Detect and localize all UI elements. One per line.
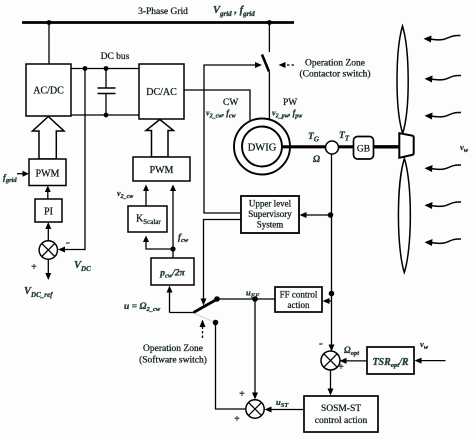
block SOSM-ST control action xyxy=(304,396,378,432)
svg-text:Upper level: Upper level xyxy=(249,199,292,209)
svg-text:+: + xyxy=(31,262,37,273)
svg-text:PWM: PWM xyxy=(150,165,174,176)
wire Omega feedback vertical xyxy=(331,154,333,348)
node Omega to supervisory xyxy=(328,212,334,218)
summing junction S3 xyxy=(321,351,340,370)
wire p_cw box to f_cw node xyxy=(172,249,174,258)
block PWM2 (CW side) xyxy=(133,157,190,181)
wire u_FF down to summing S2 xyxy=(254,299,256,396)
converter DC/AC U2 xyxy=(139,64,184,119)
svg-text:action: action xyxy=(288,300,310,310)
wire f_cw to PWM2 xyxy=(172,188,174,249)
wire K_scalar to PWM2 xyxy=(145,188,147,206)
wire PI to PWM1 xyxy=(47,189,49,199)
wire DC bus bottom xyxy=(71,114,139,116)
wire Omega to FF box xyxy=(326,300,332,302)
node: switch bottom contact xyxy=(213,320,219,326)
node: capacitor bottom xyxy=(104,113,109,118)
svg-text:Operation Zone: Operation Zone xyxy=(143,344,203,354)
wind arrow 6 xyxy=(431,239,462,243)
block arrow PWM2 to DC/AC xyxy=(146,120,174,158)
svg-text:CW: CW xyxy=(223,98,238,108)
wire TSR to S3 xyxy=(343,360,367,362)
svg-text:DC bus: DC bus xyxy=(101,52,130,62)
converter AC/DC U1 xyxy=(26,64,71,116)
svg-text:+: + xyxy=(239,389,245,400)
software switch blade xyxy=(194,300,217,313)
3-phase grid bus xyxy=(22,21,294,24)
block TSR_opt/R xyxy=(367,347,414,374)
shaft DWIG to gearbox xyxy=(281,145,354,148)
gearbox GB xyxy=(354,137,374,160)
block K_scalar xyxy=(128,206,167,232)
wire u_ST from SOSM to S2 xyxy=(268,409,304,411)
node: grid tap left xyxy=(47,20,52,25)
block p_cw/2pi xyxy=(151,258,194,285)
wire f_grid arrow into PWM1 xyxy=(17,173,25,175)
node f_cw xyxy=(170,246,175,251)
wire S3 to SOSM xyxy=(330,370,332,393)
block arrow PWM1 to AC/DC xyxy=(33,117,65,160)
turbine blade lower xyxy=(398,159,410,273)
svg-text:(Software switch): (Software switch) xyxy=(139,355,207,366)
block FF control action xyxy=(275,287,322,312)
svg-text:GB: GB xyxy=(357,145,370,155)
wind arrow 3 xyxy=(431,112,462,116)
svg-text:Ω: Ω xyxy=(313,155,320,165)
wire Omega to supervisory box xyxy=(303,214,331,216)
svg-text:Operation Zone: Operation Zone xyxy=(305,59,365,69)
svg-text:pcw/2π: pcw/2π xyxy=(159,269,185,280)
wire grid to AC/DC xyxy=(48,23,50,65)
svg-text:SOSM-ST: SOSM-ST xyxy=(321,404,361,414)
turbine hub xyxy=(399,133,413,158)
svg-text:FF control: FF control xyxy=(280,290,318,300)
block PWM1 (grid side) xyxy=(29,159,66,186)
node: switch top contact xyxy=(214,296,220,302)
node: speed sensor circle xyxy=(326,141,339,154)
turbine blade upper xyxy=(397,26,408,134)
wire supervisory to contactor switch xyxy=(204,65,256,213)
summing junction S2 xyxy=(246,400,264,418)
wire V_DC sense from DC bus to S1 xyxy=(62,69,85,250)
svg-text:+: + xyxy=(338,362,344,373)
node u_FF branch xyxy=(252,296,258,302)
contactor switch blade xyxy=(262,55,269,72)
faint open-position line of software switch xyxy=(195,314,214,322)
svg-text:3-Phase Grid: 3-Phase Grid xyxy=(138,7,188,17)
wire grid down to contactor xyxy=(268,23,270,53)
wire contactor to PW xyxy=(268,72,270,121)
wind arrow 2 xyxy=(431,75,462,79)
wire V_DC_ref stub with down arrow xyxy=(47,259,49,275)
wire u_FF xyxy=(217,298,275,300)
node: V_DC tap xyxy=(83,66,88,71)
svg-text:control action: control action xyxy=(315,416,368,426)
wire stub to software switch xyxy=(170,312,194,314)
summing junction S1 xyxy=(39,241,57,259)
node: grid tap at contactor xyxy=(267,20,272,25)
node Omega to FF xyxy=(329,291,335,297)
svg-text:AC/DC: AC/DC xyxy=(33,86,64,97)
block Upper level Supervisory System xyxy=(241,196,299,233)
svg-text:System: System xyxy=(257,220,284,230)
svg-text:Supervisory: Supervisory xyxy=(248,209,292,219)
svg-text:+: + xyxy=(234,414,240,425)
svg-text:PI: PI xyxy=(44,207,53,218)
svg-text:PW: PW xyxy=(283,98,297,108)
wire u up into p_cw box xyxy=(169,289,171,313)
dashed arrow to contactor switch xyxy=(283,64,294,66)
wire summing S1 to PI xyxy=(47,226,49,241)
svg-text:DWIG: DWIG xyxy=(248,143,277,154)
wire S2 output to switch bottom contact xyxy=(216,323,246,410)
wire f_cw branch to K_scalar xyxy=(146,239,173,249)
wind arrow 1 xyxy=(430,35,461,39)
wind arrow 4 xyxy=(431,165,462,169)
svg-text:TSRopt/R: TSRopt/R xyxy=(372,357,408,369)
svg-text:-: - xyxy=(66,235,70,249)
block PI xyxy=(35,199,62,222)
shaft gearbox to turbine xyxy=(374,145,400,148)
dashed arrow to software switch xyxy=(202,325,204,338)
machine DWIG outer circle xyxy=(234,119,290,175)
machine DWIG inner circle xyxy=(242,127,282,167)
svg-text:-: - xyxy=(319,336,323,350)
wire supervisory to software switch xyxy=(204,220,242,301)
wire CW from DC/AC to DWIG xyxy=(184,90,250,121)
wind arrow 5 xyxy=(431,202,462,206)
wire DC bus top xyxy=(71,68,139,70)
svg-text:PWM: PWM xyxy=(36,169,60,180)
wire v_w into TSR xyxy=(418,360,446,362)
capacitor C1 (DC link) xyxy=(105,69,107,89)
node: capacitor top xyxy=(104,66,109,71)
svg-text:(Contactor switch): (Contactor switch) xyxy=(300,69,371,80)
svg-text:DC/AC: DC/AC xyxy=(146,87,177,98)
